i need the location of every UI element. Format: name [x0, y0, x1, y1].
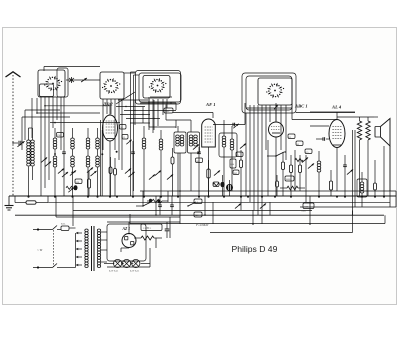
wave switch S2 — [102, 78, 120, 93]
mains switch — [53, 226, 62, 268]
mesh h y100 — [118, 99, 148, 101]
svg-text:AL 4: AL 4 — [331, 105, 342, 110]
coil L7 — [142, 126, 146, 196]
mesh h3 — [50, 122, 120, 124]
svg-text:0,1: 0,1 — [123, 137, 126, 139]
secondary leads — [101, 232, 107, 262]
svg-text:~ W: ~ W — [37, 248, 43, 252]
switch S6 — [136, 202, 151, 207]
trimmer T13 — [240, 143, 246, 148]
tube V4 — [329, 120, 345, 148]
label ABC1 — [294, 104, 308, 109]
short verticals rails — [143, 153, 270, 224]
trimmer on A-B wire — [81, 78, 87, 82]
svg-text:KW: KW — [57, 135, 60, 137]
box 0.1 V1b — [122, 135, 128, 140]
IF1 coil b1 — [189, 135, 193, 146]
wire grid V2 — [173, 113, 213, 119]
resistor R9 — [276, 175, 279, 196]
OT top wire — [337, 116, 374, 118]
transformer primary — [85, 229, 88, 268]
svg-text:6,3V 0,3A: 6,3V 0,3A — [109, 270, 119, 273]
top rail A — [44, 67, 100, 72]
squiggle R11 — [295, 158, 303, 161]
wires under S4 — [270, 105, 286, 160]
mesh junction dots — [125, 102, 154, 119]
cap C15 — [158, 196, 162, 215]
trimmer T14 — [308, 163, 314, 168]
ground bus — [9, 195, 396, 197]
right edge vertical — [389, 146, 391, 207]
switch S5 — [267, 151, 286, 157]
IF transformer 1 box b — [188, 132, 200, 153]
junction dots left — [54, 151, 118, 174]
V5 leads — [121, 248, 129, 252]
speaker — [375, 119, 390, 197]
small boxes left of jack — [233, 152, 243, 175]
mesh stair — [166, 105, 191, 129]
mesh v1 — [31, 98, 33, 138]
rectifier V5 — [122, 222, 136, 248]
svg-text:0,8A: 0,8A — [61, 223, 66, 226]
IF1 coil a2 — [180, 135, 184, 146]
tube V3 — [269, 122, 284, 137]
mesh v2 — [36, 98, 38, 113]
IF transformer 1 box a — [174, 132, 186, 153]
trimmer T3 — [58, 168, 68, 177]
resistor R10 — [329, 170, 332, 196]
mains wire lower — [61, 265, 76, 268]
switch box S4 — [242, 73, 296, 113]
lamp 1 — [114, 259, 122, 267]
mesh h y123 — [130, 122, 150, 124]
PSU right verticals — [156, 217, 180, 248]
trimmer T18 — [260, 203, 266, 208]
mesh v4 — [22, 117, 70, 150]
trimmer V1 cathode — [126, 140, 131, 144]
bundle exit wires — [265, 105, 267, 150]
resistor R4 — [239, 150, 242, 196]
staircase bottom right — [210, 211, 353, 233]
mesh h y114 — [120, 114, 150, 116]
antenna — [6, 72, 21, 196]
box 50 V1 — [120, 125, 127, 130]
svg-text:5000: 5000 — [76, 182, 80, 184]
OT winding 1 — [357, 117, 361, 196]
trimmer T6 — [125, 168, 131, 173]
extra wires ABC1 — [268, 140, 306, 202]
wave switch S4 — [266, 83, 284, 98]
resistor R7 — [298, 155, 301, 191]
box KW — [141, 224, 162, 231]
mesh h2 — [37, 112, 100, 114]
double vertical V1k — [101, 120, 103, 196]
label AF1 — [205, 102, 216, 107]
coil pair 4 — [86, 128, 90, 196]
wire V1 bottom — [109, 141, 111, 196]
coil L9b — [230, 139, 234, 150]
wire bundle x262 — [261, 105, 263, 224]
squiggle on bus — [147, 199, 168, 204]
box 5000 left — [75, 179, 82, 184]
trimmer T17 — [235, 203, 241, 208]
mains plug bottom — [33, 266, 53, 268]
transformer secondary — [97, 229, 100, 268]
label AK2 — [102, 101, 113, 106]
primary taps — [76, 232, 83, 266]
trimmer T1 — [41, 157, 47, 162]
box 0.04 — [230, 159, 236, 168]
cap C5 — [62, 143, 66, 196]
trimmer T8 — [149, 174, 155, 179]
rail y202 — [48, 201, 390, 203]
coil L11 box — [357, 179, 367, 197]
trimmer T7 — [128, 172, 134, 177]
wire bundle x258 — [257, 105, 259, 215]
trimmer T12 — [214, 170, 220, 175]
box 1.0 — [194, 199, 202, 204]
junction star — [69, 77, 74, 83]
gridcap wire V1 — [116, 92, 135, 104]
pot blob left — [66, 185, 78, 192]
svg-text:6,3V 0,2A: 6,3V 0,2A — [130, 270, 140, 273]
box 140 — [194, 212, 202, 217]
tuning gang cap — [17, 141, 24, 147]
rail y207 — [300, 207, 396, 213]
squiggle R12 — [134, 236, 162, 240]
svg-text:1M: 1M — [234, 173, 237, 175]
resistor below V2 — [207, 160, 210, 196]
trimmer T11 — [193, 144, 199, 149]
squiggle R8 — [280, 186, 305, 190]
mesh h y118 — [126, 118, 160, 120]
rail y215 — [15, 214, 384, 216]
wire S3 to B link — [124, 72, 135, 74]
IF1 leads — [178, 120, 191, 196]
mesh h y127 — [149, 126, 176, 128]
tube V1 — [103, 115, 118, 141]
switch box S3 — [136, 71, 182, 105]
coil pair ant 1 — [27, 128, 31, 196]
junction dots rails — [155, 190, 311, 225]
box 50000 — [285, 176, 294, 181]
svg-text:0,1: 0,1 — [289, 137, 292, 139]
nest exit wire right — [246, 108, 355, 113]
label F468 — [195, 223, 209, 227]
title Philips D 49 — [232, 244, 278, 254]
resistor R3 — [171, 148, 174, 196]
coil L11 — [360, 172, 364, 207]
lamp 2 — [123, 259, 131, 267]
OT winding 2 — [366, 117, 370, 196]
rail y210 — [73, 210, 312, 212]
svg-text:F=100kW: F=100kW — [195, 223, 209, 227]
switch S7 — [187, 202, 196, 207]
junction dots bus — [28, 196, 386, 198]
svg-text:Philips D 49: Philips D 49 — [232, 244, 278, 254]
mesh h y110 — [124, 110, 176, 112]
wires above AL4 — [292, 103, 355, 120]
box KW small — [57, 133, 64, 138]
wires under S3 — [149, 99, 171, 133]
cap C9 — [197, 147, 201, 196]
cap C17 — [165, 222, 170, 238]
resistor box left — [87, 171, 90, 196]
label AL4 — [331, 105, 342, 110]
wire V2 bottom — [208, 147, 210, 196]
wire V2 gridcap — [213, 103, 245, 128]
switch box S1 — [38, 68, 68, 97]
rail y224 — [130, 215, 385, 223]
box 5000 — [164, 108, 173, 113]
svg-text:0,04: 0,04 — [231, 164, 234, 166]
box 500 — [303, 203, 314, 209]
resistor R1 — [109, 157, 112, 196]
wire bundle x254 — [253, 105, 255, 210]
wire bundle x246 — [245, 113, 247, 196]
coil pair 5 — [96, 128, 100, 196]
tube V2 — [202, 119, 216, 147]
mesh v3 — [25, 110, 60, 140]
jack — [226, 180, 232, 196]
cap C14 — [374, 160, 377, 196]
wire x353 — [353, 130, 356, 215]
resistor R2 — [114, 158, 117, 196]
cap C7 — [131, 141, 135, 196]
cap C16 — [170, 196, 174, 215]
coil L9 leads — [224, 120, 232, 196]
switch box S2 — [100, 72, 124, 99]
wire A-B — [66, 79, 100, 81]
svg-text:0,1: 0,1 — [237, 155, 240, 157]
coil pair 3 — [71, 128, 75, 196]
V4 leads — [310, 112, 337, 191]
rail y191 — [140, 190, 396, 192]
resistor on ground lead — [15, 196, 48, 204]
wave switch S1 — [44, 76, 62, 91]
IF1 coil a1 — [176, 135, 180, 146]
mesh verticals — [135, 97, 154, 130]
label mains — [37, 248, 43, 252]
lamp labels — [109, 270, 140, 273]
box 5000 mid — [196, 158, 203, 163]
trimmer T10 — [167, 174, 173, 179]
coil pair 2 — [53, 128, 57, 196]
pot blob — [213, 175, 225, 196]
label AZ1 — [122, 227, 131, 231]
joins bottom — [56, 191, 396, 226]
PSU box — [107, 224, 146, 261]
wave switch S3 — [149, 78, 167, 93]
trimmer T15 — [302, 157, 308, 162]
PSU top rail — [56, 217, 180, 222]
IF1 coil b2 — [194, 135, 198, 146]
resistor R6 — [289, 155, 292, 196]
coil L8 — [159, 130, 163, 196]
coil ant 2 — [29, 128, 35, 180]
long verticals left of S3 — [131, 72, 140, 196]
speaker top wire — [374, 117, 378, 127]
lamp wires — [104, 263, 150, 265]
wire antenna to tuning cap — [12, 142, 18, 143]
mesh h y106 — [116, 106, 145, 108]
box below V2 — [213, 182, 219, 187]
svg-text:ABC 1: ABC 1 — [294, 104, 308, 109]
IF transformer 2 box — [219, 133, 237, 157]
trimmer T4 — [70, 170, 76, 175]
value boxes right — [288, 134, 312, 154]
svg-text:50000: 50000 — [286, 179, 291, 181]
coil L9a — [222, 136, 226, 147]
resistor R5 — [281, 152, 284, 196]
wires under S2 — [103, 99, 122, 170]
wire V1 top — [109, 103, 111, 115]
fuse — [61, 223, 76, 231]
svg-text:≈ KW ≈: ≈ KW ≈ — [143, 227, 152, 230]
svg-text:ДК 2: ДК 2 — [102, 101, 113, 106]
mains plug top — [33, 228, 53, 230]
junction dots mesh — [36, 105, 56, 123]
trimmer T16 — [347, 169, 353, 174]
mesh h y97 — [150, 96, 172, 98]
trimmer T9 — [155, 170, 161, 175]
svg-text:AF 1: AF 1 — [205, 102, 216, 107]
cap C12 — [316, 137, 329, 141]
node dots left — [28, 195, 89, 197]
cap C13 — [343, 155, 347, 196]
wires under S1 — [41, 97, 64, 196]
mesh h1 — [45, 105, 110, 107]
mesh h y103 — [140, 103, 176, 110]
trimmer T2 — [45, 161, 51, 166]
lamp 3 — [132, 259, 140, 267]
transformer core — [92, 226, 95, 271]
coil L10 — [317, 151, 321, 196]
PSU bottom wire — [107, 248, 150, 267]
trimmer T5 — [87, 167, 97, 176]
wire bundle x250 — [249, 105, 251, 202]
ground — [5, 196, 14, 210]
V3 leads — [274, 103, 278, 196]
